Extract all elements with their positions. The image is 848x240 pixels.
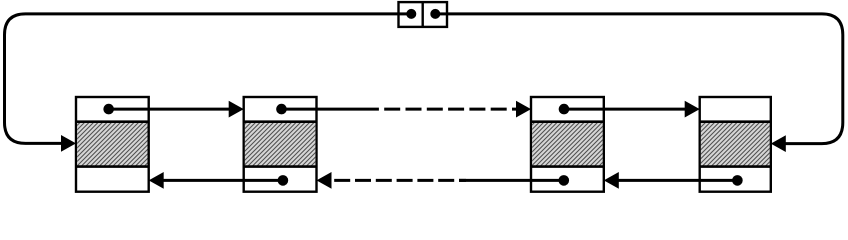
arrowhead into node 2 right: [317, 172, 332, 189]
node 4 box: [700, 97, 771, 192]
node 3 data field (hatched): [532, 122, 602, 167]
arrowhead into node 1 left (head->first): [61, 135, 76, 152]
head box divider: [422, 2, 424, 27]
arrowhead into node 2 left: [229, 101, 244, 118]
head right pointer dot: [430, 9, 440, 19]
node 1 row dividers: [76, 120, 149, 123]
node 1 next dot: [103, 104, 114, 115]
node 4 row dividers: [700, 120, 771, 123]
node 3 next dot: [559, 104, 570, 115]
head box (two pointer cells): [399, 2, 448, 27]
node 2 next dot: [276, 104, 287, 115]
wire: left loop from head box left cell around to node 1: [5, 14, 412, 144]
arrowhead into node 1 right: [149, 172, 164, 189]
wire: node4.prev -> node3: [616, 179, 738, 182]
wire: node3.prev solid part: [459, 179, 564, 182]
wire: node3.next -> node4: [564, 108, 688, 111]
node 1 box: [76, 97, 149, 192]
node 2 prev dot: [278, 175, 289, 186]
node 4 data field (hatched): [701, 122, 770, 167]
node 3 prev dot: [559, 175, 570, 186]
arrowhead into node 4 right (head->last): [771, 135, 786, 152]
node 3 row dividers: [531, 120, 604, 123]
head left pointer dot: [406, 9, 416, 19]
node 1 data field (hatched): [77, 122, 147, 167]
wire: node3.prev dashed part: [334, 179, 466, 182]
node 3 box: [531, 97, 604, 192]
node 2 box: [244, 97, 317, 192]
arrowhead into node 3 left: [516, 101, 531, 118]
node 2 data field (hatched): [245, 122, 315, 167]
wire stub: head left cell to left edge: [398, 12, 412, 15]
arrowhead into node 3 right: [604, 172, 619, 189]
wire: node2.prev -> node1: [161, 179, 283, 182]
wire stub: head right cell to right edge: [435, 12, 448, 15]
wire: node2.next dashed part: [384, 108, 519, 111]
wire: node2.next solid part: [282, 108, 379, 111]
node 2 row dividers: [244, 120, 317, 123]
arrowhead into node 4 left: [685, 101, 700, 118]
wire: right loop from head box right cell around to node 4: [435, 14, 843, 144]
node 4 prev dot: [732, 175, 743, 186]
wire: node1.next -> node2: [109, 108, 232, 111]
